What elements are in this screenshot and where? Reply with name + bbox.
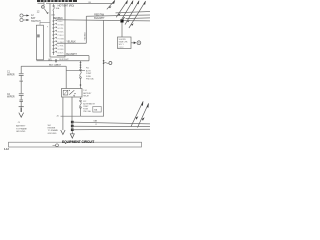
svg-text:PNK 30A: PNK 30A bbox=[86, 78, 94, 81]
wire RED/BLK (line B) bbox=[57, 20, 150, 21]
svg-text:TO FRAME: TO FRAME bbox=[48, 129, 59, 132]
horn feed wire bbox=[131, 42, 134, 44]
bus wire upper (W1) bbox=[37, 60, 81, 62]
relay ground leg bbox=[62, 97, 64, 130]
svg-text:SWITCH: SWITCH bbox=[31, 20, 41, 23]
svg-text:WIPER: WIPER bbox=[7, 75, 15, 77]
svg-text:BLK/WHT: BLK/WHT bbox=[59, 59, 69, 61]
svg-text:YEL/BLK: YEL/BLK bbox=[66, 41, 76, 43]
svg-text:AUTO: AUTO bbox=[86, 69, 92, 72]
svg-text:30A: 30A bbox=[56, 7, 60, 10]
svg-text:B2 BLK: B2 BLK bbox=[58, 53, 65, 55]
svg-text:PUMP: PUMP bbox=[86, 73, 92, 75]
bottom off-page arrow E2 bbox=[138, 104, 149, 128]
contact row labels bbox=[58, 21, 65, 55]
svg-text:R2 RED: R2 RED bbox=[58, 25, 65, 27]
header bar (cropped table header) bbox=[37, 0, 77, 2]
svg-text:GROUND: GROUND bbox=[16, 131, 26, 133]
svg-text:HOT BAT (RD): HOT BAT (RD) bbox=[58, 5, 75, 8]
svg-text:TO FRAME: TO FRAME bbox=[16, 127, 27, 130]
svg-text:BLK/WHT: BLK/WHT bbox=[94, 18, 105, 20]
label 9 14 BATTERY RELAY bbox=[83, 90, 92, 98]
svg-text:BATTERY: BATTERY bbox=[83, 92, 92, 95]
horn relay box bbox=[118, 37, 132, 49]
svg-text:BATTERY: BATTERY bbox=[16, 125, 26, 128]
svg-text:9 14: 9 14 bbox=[83, 90, 87, 92]
bus wire lower (BLK CABLE) bbox=[21, 65, 66, 67]
svg-text:PNK 30A: PNK 30A bbox=[83, 110, 91, 113]
svg-text:RELAY: RELAY bbox=[83, 95, 90, 98]
junction box outline bbox=[66, 69, 85, 71]
svg-text:H2 BLK: H2 BLK bbox=[58, 32, 65, 34]
wire arrow into switch bbox=[44, 9, 47, 14]
header text remnants bbox=[38, 3, 51, 4]
off-page arrow fan D4 bbox=[129, 1, 146, 28]
svg-text:BLU/WHT: BLU/WHT bbox=[66, 54, 77, 56]
svg-text:EQUIPMENT CIRCUIT: EQUIPMENT CIRCUIT bbox=[62, 140, 94, 144]
wire H1 short right bbox=[116, 12, 151, 13]
caption bar bbox=[9, 142, 142, 147]
resistor block R1 bbox=[36, 25, 43, 60]
battery cable chain C1 bbox=[20, 66, 22, 73]
svg-text:WIPER: WIPER bbox=[7, 97, 15, 99]
svg-text:H1 YEL: H1 YEL bbox=[58, 28, 64, 30]
wire YEL/BLK (line A) bbox=[57, 42, 87, 44]
bottom feed wires bbox=[71, 97, 73, 131]
svg-text:B1 RED: B1 RED bbox=[58, 49, 65, 51]
svg-text:P1 BLU: P1 BLU bbox=[58, 35, 65, 37]
connector C2 bbox=[19, 93, 24, 95]
svg-text:L2 PNK: L2 PNK bbox=[58, 46, 65, 48]
30A box bbox=[93, 107, 101, 113]
svg-text:A1: A1 bbox=[57, 114, 59, 117]
fuse F1 30A bbox=[53, 4, 55, 5]
wire hot feed top (line Z) bbox=[65, 3, 114, 5]
bottom off-page arrow E1 bbox=[131, 102, 143, 127]
svg-text:BLK CABLE: BLK CABLE bbox=[49, 64, 61, 67]
wire down mid (from line B junction) bbox=[103, 20, 105, 116]
connector on mid wire bbox=[103, 60, 105, 62]
off-page arrow fan D3 bbox=[125, 1, 139, 25]
down arrow bbox=[71, 131, 73, 133]
wire segment to chain node bbox=[81, 60, 90, 62]
svg-text:R BLK: R BLK bbox=[58, 21, 64, 23]
battery ground W5 bbox=[19, 106, 24, 108]
connector bullet A bbox=[20, 14, 23, 17]
switch contact chain bbox=[53, 12, 55, 56]
off-page arrow fan D1 bbox=[116, 1, 127, 18]
fuse F21 chain bbox=[80, 61, 82, 69]
svg-text:GROUND: GROUND bbox=[48, 133, 57, 135]
svg-text:C1 12: C1 12 bbox=[119, 47, 124, 49]
off-page arrow Z bbox=[107, 0, 115, 9]
svg-text:12: 12 bbox=[95, 120, 97, 122]
svg-text:P2 GRN: P2 GRN bbox=[58, 39, 65, 41]
link wire to switch bbox=[40, 22, 50, 25]
wire down to horn relay bbox=[121, 23, 123, 38]
svg-text:12: 12 bbox=[95, 124, 97, 126]
wire H4 from junction square bbox=[126, 17, 151, 20]
off-page arrow fan D2 bbox=[121, 1, 133, 21]
svg-text:YEL/BLK: YEL/BLK bbox=[84, 31, 86, 40]
connector bullet B bbox=[20, 18, 23, 21]
junction square bbox=[120, 19, 123, 22]
svg-text:F21: F21 bbox=[86, 68, 89, 70]
svg-text:S AIR CHK: S AIR CHK bbox=[119, 41, 129, 44]
battery relay 9 14 bbox=[62, 89, 83, 98]
svg-text:1-12: 1-12 bbox=[4, 148, 9, 150]
node junction on F21 chain bbox=[80, 84, 82, 86]
chain connector below W1 bbox=[80, 62, 82, 64]
switch assembly S1 box bbox=[50, 4, 65, 58]
circuit breaker CB1 bbox=[43, 2, 45, 5]
fuse F22 chain bbox=[80, 98, 81, 99]
wire BLU/WHT (wire 3) bbox=[57, 55, 89, 57]
ground W4 bbox=[61, 130, 65, 135]
svg-text:FUSE: FUSE bbox=[86, 76, 92, 78]
horn bbox=[137, 41, 141, 45]
